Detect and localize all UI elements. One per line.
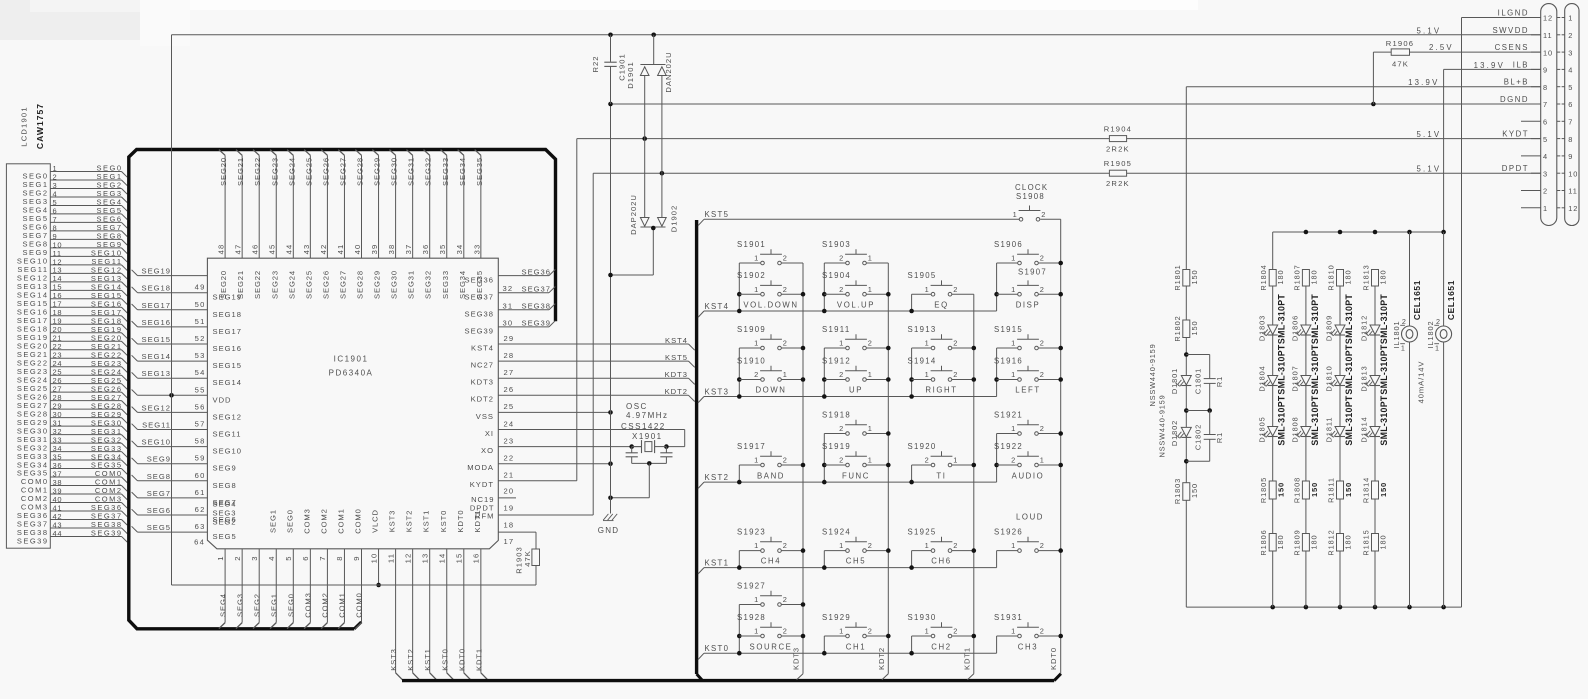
svg-text:47K: 47K	[1392, 60, 1409, 69]
svg-text:S1911: S1911	[822, 325, 850, 334]
svg-text:KST1: KST1	[423, 648, 432, 671]
svg-text:4: 4	[267, 555, 276, 560]
svg-text:SML-310PT: SML-310PT	[1344, 344, 1354, 394]
wire KDT2 column vertical	[877, 263, 889, 680]
svg-text:8: 8	[335, 555, 344, 560]
svg-text:24: 24	[504, 419, 515, 428]
svg-text:150: 150	[1190, 483, 1199, 498]
svg-text:31: 31	[503, 301, 514, 310]
svg-text:KST1: KST1	[705, 558, 730, 567]
svg-text:SEG25: SEG25	[304, 270, 313, 299]
LED column 1 wire	[1272, 286, 1274, 607]
svg-text:36: 36	[421, 244, 430, 255]
switch S1903	[822, 240, 888, 265]
svg-text:S1916: S1916	[994, 357, 1023, 366]
svg-text:1: 1	[839, 627, 844, 636]
svg-text:SEG13: SEG13	[142, 369, 171, 378]
svg-text:BAND: BAND	[757, 472, 785, 481]
IC1901 left pin wire SEG15	[132, 334, 242, 353]
svg-text:SEG17: SEG17	[213, 327, 242, 336]
svg-text:S1912: S1912	[822, 357, 851, 366]
svg-text:R1805: R1805	[1259, 477, 1268, 503]
capacitor C1801 / R1 branch (parallel with D1801)	[1186, 355, 1224, 413]
LCD pin 4 SEG3	[22, 189, 127, 206]
svg-text:1: 1	[216, 555, 225, 560]
wire XI pin24 to crystal	[498, 430, 684, 447]
svg-text:SEG24: SEG24	[287, 270, 296, 299]
svg-text:CH2: CH2	[931, 643, 951, 652]
wire KDT3 from pin27 to keyboard bus	[498, 370, 694, 384]
svg-text:VLCD: VLCD	[371, 509, 380, 533]
svg-text:SEG38: SEG38	[522, 302, 551, 311]
IC1901 top pin 39 SEG29	[370, 150, 382, 299]
svg-text:SEG36: SEG36	[522, 267, 551, 276]
diode D1902 DAP202U	[608, 139, 678, 278]
switch S1909	[737, 325, 803, 350]
svg-text:2: 2	[1041, 210, 1046, 219]
svg-text:4: 4	[1568, 66, 1573, 75]
svg-text:2R2K: 2R2K	[1106, 179, 1130, 188]
svg-text:D1814: D1814	[1360, 416, 1369, 442]
svg-text:KST1: KST1	[422, 510, 431, 533]
svg-text:D1804: D1804	[1257, 365, 1266, 391]
capacitor C1901 (R22)	[591, 35, 627, 104]
wire XO pin23 to crystal	[498, 446, 641, 448]
svg-text:SML-310PT: SML-310PT	[1310, 395, 1320, 445]
LED supply rail (ILB 13.9V)	[1273, 230, 1446, 270]
svg-text:SML-310PT: SML-310PT	[1379, 294, 1389, 344]
svg-text:COM3: COM3	[304, 592, 313, 618]
IC1901 bottom pin 3 SEG2	[250, 549, 262, 629]
svg-text:S1930: S1930	[908, 613, 937, 622]
svg-text:1: 1	[868, 254, 873, 263]
key caption LEFT	[1015, 386, 1040, 395]
capacitor C1802 / R1 branch (parallel with D1802)	[1186, 411, 1224, 462]
op-amp U1 IC1901 PD6340A body	[207, 258, 498, 549]
svg-text:2: 2	[839, 424, 844, 433]
resistor R1906 47K	[1373, 39, 1414, 104]
key caption EQ	[934, 301, 948, 310]
key caption CH1	[846, 643, 866, 652]
connector pin 4 NC	[1521, 152, 1573, 161]
svg-text:SML-310PT: SML-310PT	[1277, 344, 1287, 394]
svg-text:VSS: VSS	[476, 412, 494, 421]
svg-text:PD6340A: PD6340A	[329, 369, 374, 378]
svg-text:2: 2	[1040, 627, 1045, 636]
svg-text:180: 180	[1276, 269, 1285, 284]
svg-text:2: 2	[839, 456, 844, 465]
svg-text:180: 180	[1379, 534, 1388, 549]
svg-text:S1923: S1923	[737, 528, 766, 537]
IC1901 bottom pin 8 COM1	[335, 508, 347, 628]
key caption UP	[849, 386, 863, 395]
resistor R1804 180	[1259, 264, 1285, 290]
svg-text:S1908: S1908	[1016, 192, 1045, 201]
svg-text:150: 150	[1310, 482, 1319, 497]
LCD pin 8 SEG7	[22, 223, 127, 240]
lamp IL1801 CEL1651	[1392, 232, 1422, 607]
svg-text:SEG3: SEG3	[213, 509, 237, 518]
svg-text:XO: XO	[481, 446, 494, 455]
IC1901 left pin wire VDD	[132, 385, 232, 404]
svg-text:D1802: D1802	[1170, 420, 1179, 446]
svg-text:32: 32	[503, 284, 514, 293]
connector body (right half)	[1565, 4, 1579, 226]
svg-text:SEG0: SEG0	[285, 509, 294, 533]
svg-text:COM1: COM1	[336, 508, 345, 534]
svg-text:SEG22: SEG22	[253, 157, 262, 186]
resistor R1806 180	[1259, 529, 1285, 555]
svg-text:D1811: D1811	[1325, 417, 1334, 443]
LCD pin 27 SEG26	[17, 384, 127, 401]
svg-text:2: 2	[953, 285, 958, 294]
svg-text:1: 1	[1040, 456, 1045, 465]
svg-text:D1901: D1901	[626, 61, 635, 88]
LCD pin 26 SEG25	[17, 376, 127, 393]
wire KDT0 column vertical	[1049, 219, 1061, 674]
svg-text:7: 7	[1543, 100, 1548, 109]
svg-text:57: 57	[195, 420, 206, 429]
svg-text:COM0: COM0	[355, 592, 364, 618]
switch S1916	[994, 357, 1061, 382]
IC1901 left pin wire SEG18	[132, 283, 242, 302]
LCD pin 24 SEG23	[17, 359, 127, 376]
svg-text:45: 45	[268, 244, 277, 255]
svg-text:SEG21: SEG21	[236, 270, 245, 299]
svg-text:7: 7	[1568, 118, 1573, 127]
svg-text:LEFT: LEFT	[1015, 386, 1040, 395]
svg-text:1: 1	[868, 424, 873, 433]
switch S1921	[994, 411, 1061, 436]
svg-text:150: 150	[1190, 320, 1199, 335]
svg-text:35: 35	[438, 244, 447, 255]
wire DGND	[608, 102, 1540, 107]
svg-text:S1924: S1924	[822, 528, 851, 537]
switch S1925	[908, 528, 974, 553]
svg-text:SEG2: SEG2	[213, 518, 237, 527]
svg-text:KST2: KST2	[405, 510, 414, 533]
svg-text:DAP202U: DAP202U	[629, 194, 638, 235]
svg-text:49: 49	[195, 283, 206, 292]
resistor R1815 180	[1362, 529, 1388, 555]
LCD pin 5 SEG4	[22, 198, 127, 215]
svg-text:KST2: KST2	[705, 473, 730, 482]
oscillator label OSC 4.97MHz CSS1422	[621, 402, 669, 441]
svg-text:16: 16	[472, 553, 481, 564]
svg-text:SEG20: SEG20	[219, 157, 228, 186]
svg-text:KDT0: KDT0	[1049, 647, 1058, 670]
svg-text:KST4: KST4	[665, 336, 688, 345]
svg-text:4.97MHz: 4.97MHz	[626, 411, 669, 420]
svg-text:SEG24: SEG24	[287, 157, 296, 186]
key caption CH3	[1018, 643, 1038, 652]
svg-text:SML-310PT: SML-310PT	[1379, 395, 1389, 445]
svg-text:62: 62	[195, 505, 206, 514]
svg-text:2: 2	[1543, 187, 1548, 196]
svg-text:5.1V: 5.1V	[1416, 130, 1441, 139]
LCD pin 23 SEG22	[17, 350, 127, 367]
lamp rating 40mA/14V	[1417, 361, 1426, 404]
svg-text:RIGHT: RIGHT	[925, 386, 957, 395]
svg-text:1: 1	[754, 339, 759, 348]
svg-text:S1903: S1903	[822, 240, 851, 249]
svg-text:SEG26: SEG26	[321, 157, 330, 186]
voltage label 5.1V DPDT	[1416, 165, 1441, 174]
svg-text:SEG33: SEG33	[441, 270, 450, 299]
svg-text:SEG37: SEG37	[522, 285, 551, 294]
keyboard matrix bus (thick)	[402, 220, 1061, 681]
svg-text:SEG9: SEG9	[213, 464, 237, 473]
svg-text:D1808: D1808	[1291, 416, 1300, 442]
svg-text:1: 1	[953, 456, 958, 465]
IC1901 left pin wire SEG9	[132, 454, 237, 473]
LCD pin 9 SEG8	[22, 232, 127, 249]
svg-text:CAW1757: CAW1757	[35, 103, 45, 149]
IC1901 bottom pin 2 SEG3	[233, 549, 245, 629]
key caption DOWN	[755, 386, 786, 395]
svg-text:SML-310PT: SML-310PT	[1277, 294, 1287, 344]
IC1901 bottom pin 6 COM3	[301, 508, 313, 628]
LCD pin 17 SEG16	[17, 299, 127, 316]
svg-text:1: 1	[925, 627, 930, 636]
resistor R1808 150	[1292, 477, 1319, 503]
svg-text:13.9V: 13.9V	[1474, 61, 1505, 70]
IC1901 left pin wire SEG19	[132, 267, 208, 276]
svg-text:R1809: R1809	[1292, 529, 1301, 555]
svg-text:1: 1	[868, 285, 873, 294]
LCD pin 37 COM0	[21, 469, 127, 486]
svg-text:NSSW440-9159: NSSW440-9159	[1158, 394, 1167, 457]
svg-text:D1902: D1902	[670, 205, 679, 232]
switch S1902	[737, 271, 803, 296]
voltage label 13.9V ILB	[1474, 61, 1505, 70]
svg-text:1: 1	[839, 541, 844, 550]
svg-text:1: 1	[754, 456, 759, 465]
svg-text:51: 51	[195, 317, 206, 326]
switch S1904	[822, 271, 888, 296]
svg-text:SEG11: SEG11	[213, 430, 242, 439]
svg-text:1: 1	[925, 370, 930, 379]
IC1901 right pin 26 KDT2 number+name	[471, 385, 515, 404]
svg-text:2: 2	[953, 370, 958, 379]
svg-text:180: 180	[1344, 269, 1353, 284]
svg-text:56: 56	[195, 402, 206, 411]
IC1901 left pin wire SEG5	[132, 522, 237, 541]
svg-text:D1807: D1807	[1291, 365, 1300, 391]
svg-text:SEG5: SEG5	[147, 523, 171, 532]
svg-text:D1809: D1809	[1325, 315, 1334, 341]
switch S1919	[822, 442, 888, 467]
svg-text:SEG30: SEG30	[390, 157, 399, 186]
resistor R1802 150	[1173, 315, 1199, 341]
LED D1814 SML-310PT	[1360, 395, 1389, 445]
diode D1802 NSSW440-9159	[1158, 394, 1192, 457]
svg-text:S1907: S1907	[1018, 268, 1047, 277]
connector pin 11 SWVDD	[1492, 26, 1573, 40]
svg-text:1: 1	[925, 541, 930, 550]
LED column 2 wire	[1305, 286, 1307, 607]
svg-text:SEG21: SEG21	[236, 157, 245, 186]
svg-text:22: 22	[504, 454, 515, 463]
svg-text:S1917: S1917	[737, 442, 766, 451]
svg-text:2: 2	[925, 456, 930, 465]
connector pin 2 NC	[1521, 187, 1578, 196]
svg-text:64: 64	[194, 538, 205, 547]
svg-text:180: 180	[1276, 534, 1285, 549]
svg-text:1: 1	[1013, 210, 1018, 219]
svg-text:RFM: RFM	[475, 511, 494, 520]
svg-text:27: 27	[504, 368, 515, 377]
svg-text:CEL1651: CEL1651	[1412, 280, 1422, 320]
svg-text:44: 44	[53, 529, 63, 538]
svg-text:1: 1	[783, 370, 788, 379]
switch S1920	[908, 442, 974, 467]
svg-text:S1913: S1913	[908, 325, 937, 334]
svg-text:SEG39: SEG39	[91, 529, 123, 538]
IC1901 top pin 48 SEG20	[217, 150, 229, 299]
svg-text:180: 180	[1309, 534, 1318, 549]
svg-text:R1814: R1814	[1362, 477, 1371, 503]
svg-text:VDD: VDD	[213, 395, 232, 404]
svg-text:R1804: R1804	[1259, 264, 1268, 290]
switch S1928	[737, 613, 803, 638]
LCD pin 1 SEG0	[22, 164, 127, 181]
LED return rail (ILGND)	[1186, 605, 1461, 610]
svg-text:180: 180	[1309, 269, 1318, 284]
svg-text:KDT3: KDT3	[665, 370, 688, 379]
resistor R1807 180	[1292, 264, 1318, 290]
connector pin 3 DPDT	[1502, 164, 1579, 178]
svg-text:SEG23: SEG23	[270, 157, 279, 186]
svg-text:KST4: KST4	[471, 343, 494, 352]
svg-text:KST0: KST0	[440, 648, 449, 671]
svg-text:2: 2	[233, 555, 242, 560]
svg-text:59: 59	[195, 454, 206, 463]
svg-text:KDT2: KDT2	[665, 387, 688, 396]
cell verticals row5 (SOURCE/CH1/CH2/CH3)	[737, 605, 997, 656]
LCD pin 44 SEG39	[17, 529, 127, 546]
resistor R1809 180	[1292, 529, 1318, 555]
key caption FUNC	[842, 472, 870, 481]
svg-text:3: 3	[250, 555, 259, 560]
svg-text:SML-310PT: SML-310PT	[1344, 294, 1354, 344]
capacitor C-left of crystal	[626, 447, 638, 464]
svg-text:SEG0: SEG0	[287, 593, 296, 617]
svg-text:1: 1	[1011, 254, 1016, 263]
IC1901 top pin 43 SEG25	[302, 150, 314, 299]
svg-text:KST3: KST3	[388, 510, 397, 533]
IC1901 bottom pin 16 KDT1	[472, 509, 489, 680]
LCD pin 29 SEG28	[17, 401, 127, 418]
svg-text:KST5: KST5	[705, 210, 730, 219]
svg-text:LOUD: LOUD	[1016, 513, 1044, 522]
svg-text:SEG27: SEG27	[338, 270, 347, 299]
IC1901 bottom pin 5 SEG0	[284, 509, 296, 629]
svg-text:2: 2	[783, 285, 788, 294]
svg-text:2: 2	[839, 285, 844, 294]
switch S1926	[994, 528, 1061, 553]
svg-text:2: 2	[839, 254, 844, 263]
svg-text:S1904: S1904	[822, 271, 851, 280]
svg-text:AUDIO: AUDIO	[1012, 472, 1045, 481]
LCD pin 40 COM3	[21, 495, 127, 512]
svg-text:18: 18	[504, 521, 515, 530]
svg-text:2: 2	[1402, 317, 1407, 326]
LED D1806 SML-310PT	[1291, 294, 1320, 344]
svg-text:S1906: S1906	[994, 240, 1023, 249]
svg-text:1: 1	[925, 339, 930, 348]
wire DPDT pin19 riser	[498, 173, 593, 515]
IC1901 pins 20/19/18 numbers and names NC19 DPDT RFM	[470, 487, 515, 547]
svg-text:SEG3: SEG3	[235, 593, 244, 617]
key caption RIGHT	[925, 386, 957, 395]
key caption VOL.DOWN	[743, 301, 798, 310]
svg-text:SEG38: SEG38	[465, 310, 494, 319]
svg-text:SEG14: SEG14	[213, 378, 242, 387]
switch S1901	[737, 240, 803, 265]
svg-text:1: 1	[1401, 343, 1406, 352]
IC1901 top pin 34 SEG34	[455, 150, 467, 299]
svg-text:SWVDD: SWVDD	[1492, 26, 1529, 35]
svg-text:1: 1	[754, 627, 759, 636]
svg-text:ILGND: ILGND	[1498, 9, 1529, 18]
IC1901 inside names pins 1-3	[213, 500, 237, 527]
svg-text:KDT0: KDT0	[456, 509, 465, 532]
node D1801/D1802 junction	[1184, 408, 1189, 413]
resistor R1812 180	[1327, 529, 1353, 555]
svg-text:33: 33	[472, 244, 481, 255]
voltage label 5.1V SWVDD	[1416, 26, 1441, 35]
LCD pin 20 SEG19	[17, 325, 127, 342]
capacitor C-right of crystal	[660, 447, 672, 464]
svg-text:R1: R1	[1215, 376, 1224, 387]
svg-text:GND: GND	[598, 526, 619, 535]
LED D1805 SML-310PT	[1257, 395, 1286, 445]
svg-text:IC1901: IC1901	[334, 355, 369, 364]
svg-text:63: 63	[195, 522, 206, 531]
IC1901 left pin wire SEG11	[132, 420, 242, 439]
svg-text:SML-310PT: SML-310PT	[1310, 344, 1320, 394]
ground symbol GND	[598, 505, 619, 535]
IC1901 bottom pin 4 SEG1	[267, 509, 279, 629]
svg-text:XI: XI	[485, 429, 494, 438]
svg-text:15: 15	[455, 553, 464, 564]
lamp IL1802 CEL1651	[1426, 232, 1456, 607]
IC1901 left pin wire SEG8	[132, 471, 237, 490]
svg-text:2: 2	[783, 254, 788, 263]
svg-text:VOL.DOWN: VOL.DOWN	[743, 301, 798, 310]
svg-text:20: 20	[504, 487, 515, 496]
svg-text:2: 2	[1040, 339, 1045, 348]
wire ILGND	[1462, 18, 1541, 608]
LCD pin 3 SEG2	[22, 181, 127, 198]
LCD pin 39 COM2	[21, 486, 127, 503]
svg-text:SEG2: SEG2	[252, 593, 261, 617]
LCD pin 34 SEG33	[17, 444, 127, 461]
svg-text:S1921: S1921	[994, 411, 1023, 420]
svg-text:6: 6	[1543, 118, 1548, 127]
svg-text:11: 11	[386, 553, 395, 563]
svg-text:1: 1	[839, 339, 844, 348]
svg-text:2: 2	[1436, 317, 1441, 326]
IC1901 left pin wire SEG17	[132, 300, 242, 319]
svg-text:SEG12: SEG12	[142, 403, 171, 412]
svg-text:42: 42	[319, 244, 328, 255]
IC1901 left pin wire SEG6	[132, 505, 237, 524]
svg-text:R1904: R1904	[1104, 125, 1132, 134]
svg-text:KDT0: KDT0	[457, 648, 466, 671]
IC1901 bottom pin 9 COM0	[352, 508, 364, 628]
